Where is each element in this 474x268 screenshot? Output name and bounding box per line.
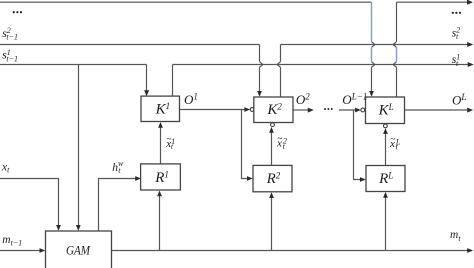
wire m_t-1 input: [0, 250, 41, 252]
arrow O1 into K2 circle: [244, 107, 250, 112]
wire xtilde1 from R1 to K1: [160, 128, 162, 164]
svg-text:s2t: s2t: [452, 26, 460, 42]
svg-text:~: ~: [390, 134, 395, 144]
wire sL_t-1 drop into KL blue mid: [371, 47, 373, 61]
wire h_t^w from GAM top to R1: [99, 179, 137, 232]
wire m branch up to RL: [385, 197, 387, 251]
label dots top left: [13, 11, 22, 13]
wire sL_t-1 drop into KL lower: [371, 67, 373, 92]
block K2: [254, 97, 293, 123]
block R2: [253, 165, 292, 191]
svg-text:s1t: s1t: [452, 52, 460, 68]
wire s1_t-1 line left segment: [0, 64, 147, 66]
arrow OL output: [467, 108, 473, 113]
svg-text:GAM: GAM: [66, 243, 91, 258]
arrow xtilde2 into K2 circle: [269, 127, 274, 133]
wire s1_t line right segment: [173, 64, 469, 66]
arrow s1_t output: [468, 62, 474, 67]
svg-text:~: ~: [277, 134, 282, 144]
svg-text:xt: xt: [1, 161, 10, 174]
wire O1 branch down to R2: [242, 110, 249, 179]
svg-text:O1: O1: [184, 92, 198, 108]
wire m_t bottom bus: [112, 250, 468, 252]
arrow x_t into GAM top: [56, 225, 61, 231]
node circle KL left: [361, 108, 365, 112]
arrow into RL left: [360, 177, 366, 182]
wire s2_t line right segment: [281, 44, 468, 46]
arrow into KL top: [369, 91, 374, 97]
arrow into RL bottom: [383, 192, 388, 198]
wire x_t input: [0, 179, 59, 227]
wire sL_t top line right segment: [397, 1, 468, 3]
hop of KL output wire over s1 line: [393, 62, 396, 68]
svg-text:s2t−1: s2t−1: [2, 26, 18, 42]
wire xtilde2 from R2 to K2: [271, 132, 273, 166]
block RL: [366, 166, 405, 192]
svg-text:mt−1: mt−1: [2, 234, 22, 247]
wire O1 from K1 to K2: [180, 109, 246, 111]
wire s1_t-1 drop into K1: [146, 65, 148, 92]
block K1: [141, 96, 180, 121]
wire sL_t-1 drop into KL blue upper: [371, 2, 373, 42]
wire O(L-1) into KL: [339, 109, 356, 111]
arrow O2 end: [308, 108, 314, 113]
svg-text:OL: OL: [452, 92, 466, 108]
node circle K2 left: [250, 108, 254, 112]
wire s2_t-1 drop into K2 upper: [259, 45, 261, 62]
hop of KL input wire over s2 line: [372, 42, 375, 48]
wire sL_t-1 top line left segment: [0, 1, 372, 3]
arrow m_t-1 into GAM left: [40, 248, 46, 253]
block KL: [366, 97, 405, 124]
wire O2 from K2: [293, 109, 309, 111]
svg-text:~: ~: [167, 134, 172, 144]
hop of KL input wire over s1 line: [372, 62, 375, 68]
node circle KL bottom: [384, 124, 388, 128]
wire K2 state output up lower: [280, 67, 282, 97]
svg-text:O2: O2: [296, 92, 310, 108]
block GAM: [46, 231, 112, 268]
svg-text:mt: mt: [450, 229, 461, 243]
arrow sL_t output: [467, 0, 473, 5]
hop of KL output wire over s2 line: [393, 42, 396, 48]
wire KL state output up blue mid: [396, 47, 398, 61]
arrow into K2 top: [257, 91, 262, 97]
arrow xtilde1 into K1 bottom: [158, 122, 163, 128]
arrow into R2 bottom: [269, 192, 274, 198]
wire K2 state output up upper: [280, 45, 282, 62]
arrow xtildeL into KL circle: [383, 128, 388, 134]
arrow into R1 bottom: [157, 191, 162, 197]
arrow into K1 top: [144, 90, 149, 96]
arrow into R2 left: [247, 176, 253, 181]
wire s1_t-1 branch down to GAM: [78, 65, 80, 227]
hop of K2 output wire over s1 line: [277, 62, 280, 68]
wire K1 state output up: [172, 65, 174, 97]
label dots top right: [452, 12, 461, 14]
wire s2_t-1 line left segment: [0, 44, 260, 46]
svg-text:hwt: hwt: [112, 159, 124, 175]
wire KL state output up upper: [396, 2, 398, 42]
arrow s1 branch into GAM top: [76, 225, 81, 231]
wire O(L-1) branch down to RL: [354, 110, 362, 180]
wire m branch up to R1: [159, 196, 161, 251]
label dots middle: [324, 108, 333, 110]
svg-text:s1t−1: s1t−1: [2, 48, 18, 64]
svg-text:OL−1: OL−1: [342, 92, 367, 108]
wire m branch up to R2: [271, 197, 273, 251]
wire xtildeL from RL to KL: [385, 133, 387, 165]
wire KL state output up lower: [396, 67, 398, 97]
arrow O(L-1) into KL circle: [355, 108, 361, 113]
arrow s2_t output: [467, 42, 473, 47]
arrow h into R1 left: [135, 176, 141, 181]
arrow m_t output: [467, 248, 473, 253]
block R1: [141, 164, 181, 190]
node circle K2 bottom: [271, 123, 275, 127]
wire OL from KL: [405, 109, 469, 111]
hop of K2 input wire over s1 line: [260, 62, 263, 68]
wire s2_t-1 drop into K2 lower: [259, 67, 261, 92]
